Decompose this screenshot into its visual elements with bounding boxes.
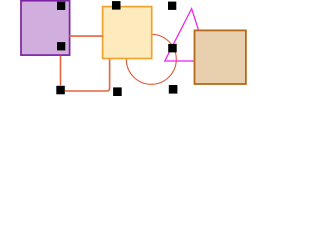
handle bottom-center	[113, 87, 122, 96]
wire L connector from cream square bottom	[65, 59, 110, 91]
handle bottom-right	[169, 85, 178, 94]
handle mid-left	[57, 42, 65, 50]
handle bottom-left	[56, 86, 65, 95]
square (cream fill, orange border)	[103, 7, 152, 59]
handle top-right	[168, 2, 176, 10]
circle (orange outline, partly hidden behind cream square)	[126, 34, 176, 84]
handle top-center	[112, 1, 121, 10]
triangle (magenta outline, partly hidden behind tan square)	[165, 9, 209, 61]
handle top-left	[57, 2, 65, 10]
square (plum fill, purple border)	[21, 1, 70, 55]
handle mid-right	[168, 44, 177, 53]
square (tan fill, brown border)	[195, 30, 246, 84]
wire horizontal connector purple->cream	[69, 35, 102, 37]
wire vertical from purple square bottom	[60, 56, 62, 86]
